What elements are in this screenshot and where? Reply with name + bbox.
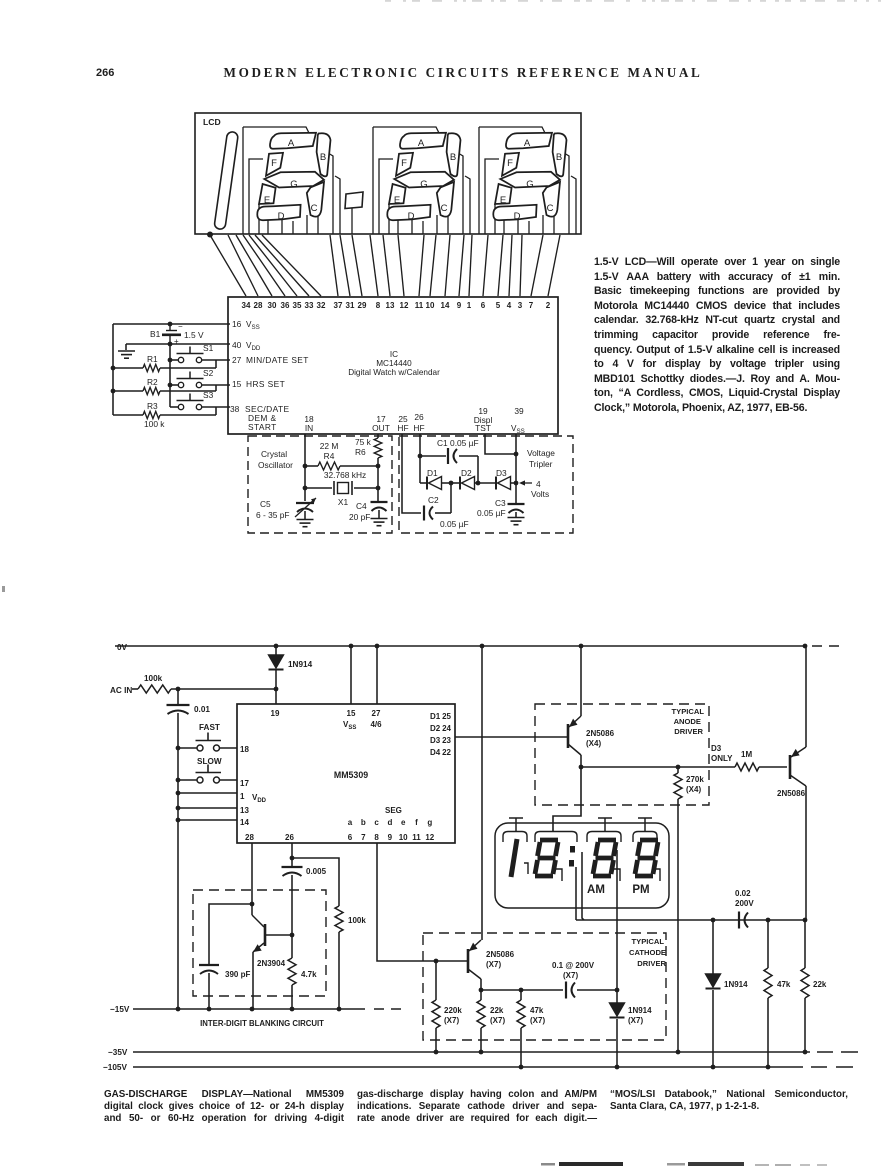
node junction [514, 452, 519, 457]
resistor R2 [113, 377, 216, 395]
svg-text:1N914: 1N914 [628, 1006, 652, 1015]
svg-text:12: 12 [400, 301, 409, 310]
svg-text:C4: C4 [356, 501, 367, 511]
svg-text:19: 19 [271, 709, 280, 718]
anode lead ticks [509, 818, 523, 831]
wire colon tail [351, 209, 353, 235]
ground below C4 [371, 519, 388, 526]
svg-text:Voltage: Voltage [527, 448, 555, 458]
svg-text:33: 33 [305, 301, 314, 310]
pin 18 IN [304, 414, 314, 433]
wire segment c to cathode driver base [377, 843, 467, 961]
svg-text:TST: TST [475, 423, 491, 433]
wire D3 pin23 to anode driver base [455, 736, 567, 738]
node cathode bus junction x768 [766, 918, 771, 923]
wire pin14 [178, 819, 237, 821]
node 0V junction x377 [375, 644, 380, 649]
transistor Q3 2N5086 (X7) cathode driver [468, 940, 515, 990]
svg-text:2: 2 [546, 301, 551, 310]
svg-text:TYPICAL: TYPICAL [632, 937, 665, 946]
node -15V junction x178 [176, 1007, 181, 1012]
svg-text:27: 27 [372, 709, 381, 718]
diode D3 [478, 468, 516, 490]
svg-text:100k: 100k [144, 674, 163, 683]
diode 1N914 right [706, 920, 749, 1067]
svg-text:2N5086: 2N5086 [777, 789, 806, 798]
svg-text:D2: D2 [461, 468, 472, 478]
label Crystal Oscillator [258, 449, 293, 470]
svg-text:R1: R1 [147, 354, 158, 364]
node -35V junction x436 [434, 1050, 439, 1055]
svg-text:AM: AM [587, 884, 605, 896]
node junction [615, 988, 620, 993]
wire VSS pin39 down [515, 434, 517, 504]
node junction [176, 778, 181, 783]
svg-text:22k: 22k [490, 1006, 504, 1015]
svg-text:14: 14 [240, 818, 249, 827]
wire pin27 to 0V [376, 646, 378, 704]
svg-text:VSS: VSS [343, 720, 356, 731]
svg-text:30: 30 [268, 301, 277, 310]
node junction [111, 389, 116, 394]
switch FAST [178, 723, 237, 751]
svg-text:DRIVER: DRIVER [637, 959, 666, 968]
node junction [274, 687, 279, 692]
svg-text:2N5086: 2N5086 [486, 950, 515, 959]
svg-text:(X7): (X7) [530, 1016, 545, 1025]
resistor 220k (X7) [432, 961, 462, 1052]
svg-text:IC: IC [390, 350, 398, 359]
display digit 8 (third) [593, 840, 616, 876]
svg-text:ONLY: ONLY [711, 754, 733, 763]
caption text GAS-DISCHARGE DISPLAY column 1 [104, 1089, 344, 1125]
node -15V junction x252 [250, 1007, 255, 1012]
svg-text:CATHODE: CATHODE [629, 948, 666, 957]
switch S2 [177, 368, 214, 388]
scan artifact bottom edge [541, 1162, 827, 1166]
svg-text:13: 13 [240, 806, 249, 815]
svg-text:d: d [387, 818, 392, 827]
resistor 1M [735, 750, 787, 771]
svg-text:Volts: Volts [531, 489, 549, 499]
svg-text:g: g [427, 818, 432, 827]
pin 15 HRS SET [232, 379, 285, 389]
svg-text:R6: R6 [355, 447, 366, 457]
svg-text:(X7): (X7) [444, 1016, 459, 1025]
svg-text:VDD: VDD [246, 341, 261, 352]
svg-text:0.05 µF: 0.05 µF [477, 508, 506, 518]
transistor Q1 2N5086 (X4) anode driver [568, 646, 615, 767]
node -35V junction x678 [676, 1050, 681, 1055]
svg-text:12: 12 [425, 833, 434, 842]
svg-text:10: 10 [426, 301, 435, 310]
pin 26 HF [413, 412, 424, 433]
svg-text:6: 6 [481, 301, 486, 310]
svg-text:20 pF: 20 pF [349, 512, 370, 522]
wire cathode bus [576, 919, 805, 921]
wire pin17 down [377, 434, 379, 438]
svg-text:LCD: LCD [203, 117, 221, 127]
svg-text:200V: 200V [735, 899, 754, 908]
dashed box crystal oscillator [248, 436, 392, 533]
svg-text:22 M: 22 M [320, 441, 339, 451]
node junction [676, 765, 681, 770]
pin 25 HF [397, 414, 408, 433]
pin name texts MM5309 [240, 709, 452, 842]
node -15V junction x209 [207, 1007, 212, 1012]
svg-text:1N914: 1N914 [288, 660, 313, 669]
node -15V junction x292 [290, 1007, 295, 1012]
switch S1 [177, 343, 214, 363]
wire base to 4.7k node [265, 934, 292, 936]
wire pin28 down [251, 843, 253, 915]
svg-text:−15V: −15V [110, 1005, 130, 1014]
svg-text:9: 9 [457, 301, 462, 310]
capacitor 0.1 @ 200V (X7) [552, 961, 617, 999]
node S1 common [168, 358, 173, 363]
resistor R4 22M [305, 441, 378, 470]
wire pin18 down [304, 434, 306, 501]
svg-text:0V: 0V [117, 643, 128, 652]
node junction [290, 933, 295, 938]
node 0V junction x351 [349, 644, 354, 649]
svg-text:e: e [401, 818, 406, 827]
svg-text:OUT: OUT [372, 423, 390, 433]
svg-text:D4: D4 [430, 748, 441, 757]
svg-text:1N914: 1N914 [724, 980, 748, 989]
node junction [168, 342, 173, 347]
svg-text:D1: D1 [430, 712, 441, 721]
resistor 47k (X7) [517, 990, 545, 1067]
wire collector bus cathode driver [481, 989, 563, 991]
svg-text:1.5 V: 1.5 V [184, 330, 204, 340]
IC name text [348, 350, 440, 377]
capacitor C3 0.05uF [477, 498, 525, 518]
svg-text:6: 6 [348, 833, 353, 842]
display colon [569, 846, 575, 867]
resistor 22k right [801, 920, 827, 1052]
switch S3 [177, 390, 214, 410]
svg-text:38: 38 [230, 404, 240, 414]
svg-text:D3: D3 [496, 468, 507, 478]
diode D2 [451, 468, 478, 490]
capacitor 390 pF [199, 904, 252, 1009]
svg-text:HF: HF [413, 423, 424, 433]
svg-text:40: 40 [232, 340, 242, 350]
svg-text:15: 15 [347, 709, 356, 718]
svg-text:220k: 220k [444, 1006, 462, 1015]
wire 0.005 node to 100k [292, 858, 339, 906]
label 4 Volts output arrow [519, 479, 549, 499]
pin 27 MIN/DATE SET [232, 355, 309, 365]
node -15V junction x339 [337, 1007, 342, 1012]
net -35V rail [108, 1048, 858, 1057]
LCD digit 2 (segments A-G) [373, 127, 470, 234]
ground below C3 [508, 518, 525, 525]
svg-text:28: 28 [254, 301, 263, 310]
pin 40 VDD [232, 340, 261, 352]
capacitor 0.005 [282, 867, 327, 935]
label Voltage Tripler [527, 448, 555, 469]
svg-text:32: 32 [317, 301, 326, 310]
wire S2 contacts [170, 384, 178, 386]
LCD colon segment [345, 192, 363, 209]
wire TST pin19 [485, 434, 516, 454]
svg-text:27: 27 [232, 355, 242, 365]
svg-text:22: 22 [442, 748, 451, 757]
svg-text:D1: D1 [427, 468, 438, 478]
wire AM/PM driver line [616, 850, 618, 990]
wire colon cathode down [575, 867, 577, 920]
node junction [176, 687, 181, 692]
svg-text:35: 35 [293, 301, 302, 310]
node junction [176, 746, 181, 751]
wire pin13 [178, 807, 237, 809]
svg-text:MODERN ELECTRONIC CIRCUITS REF: MODERN ELECTRONIC CIRCUITS REFERENCE MAN… [224, 65, 703, 80]
capacitor C2 0.05uF [424, 483, 469, 529]
wire anode driver collector bus [581, 766, 735, 768]
net -15V rail [110, 1005, 401, 1014]
svg-text:c: c [374, 818, 379, 827]
svg-text:ANODE: ANODE [674, 717, 701, 726]
wire AM/PM cathode down [582, 852, 584, 920]
cathode tail hooks [524, 863, 660, 881]
node junction [168, 322, 173, 327]
caption text column 2 [357, 1089, 597, 1125]
pin 17 OUT [372, 414, 390, 433]
svg-text:(X7): (X7) [486, 960, 501, 969]
wire pin26 down [419, 434, 421, 483]
svg-text:47k: 47k [777, 980, 791, 989]
wire pin15 to 0V [350, 646, 352, 704]
ground below C5 [297, 520, 314, 527]
pin 19 Displ TST [474, 406, 493, 433]
svg-text:INTER-DIGIT BLANKING CIRCUIT: INTER-DIGIT BLANKING CIRCUIT [200, 1019, 324, 1028]
node cathode bus junction x805 [803, 918, 808, 923]
svg-text:11: 11 [415, 301, 424, 310]
svg-text:2N5086: 2N5086 [586, 729, 615, 738]
svg-text:14: 14 [441, 301, 450, 310]
svg-text:(X7): (X7) [490, 1016, 505, 1025]
svg-text:22k: 22k [813, 980, 827, 989]
node junction [579, 765, 584, 770]
svg-text:270k: 270k [686, 775, 704, 784]
node junction [476, 481, 481, 486]
node S2 common [168, 383, 173, 388]
svg-text:SEG: SEG [385, 806, 402, 815]
resistor R1 [113, 354, 216, 372]
pin numbers top row [242, 301, 551, 310]
resistor R6 75k [355, 437, 382, 502]
node X1 right [376, 486, 381, 491]
node -105V junction x617 [615, 1065, 620, 1070]
svg-text:29: 29 [358, 301, 367, 310]
svg-text:0.05 µF: 0.05 µF [440, 519, 469, 529]
svg-text:18: 18 [240, 745, 249, 754]
svg-text:HRS SET: HRS SET [246, 379, 285, 389]
svg-text:R4: R4 [324, 451, 335, 461]
svg-text:b: b [361, 818, 366, 827]
svg-text:START: START [248, 422, 277, 432]
svg-text:VDD: VDD [252, 793, 267, 804]
pin 39 VSS [511, 406, 525, 435]
svg-text:(X7): (X7) [628, 1016, 643, 1025]
svg-text:1: 1 [467, 301, 472, 310]
node junction [519, 988, 524, 993]
svg-text:R2: R2 [147, 377, 158, 387]
svg-text:D3: D3 [430, 736, 441, 745]
pin 16 VSS [232, 319, 260, 331]
node 0V junction x805 [803, 644, 808, 649]
svg-text:4.7k: 4.7k [301, 970, 317, 979]
svg-text:28: 28 [245, 833, 254, 842]
svg-text:32.768 kHz: 32.768 kHz [324, 470, 366, 480]
LCD digit 3 (segments A-G) [479, 127, 576, 234]
svg-text:Tripler: Tripler [529, 459, 553, 469]
diode D1 [420, 468, 451, 490]
wire VDD row pin40 [170, 343, 230, 345]
svg-text:36: 36 [281, 301, 290, 310]
wire anode lead digit2 from driver [553, 767, 581, 831]
LCD display outline [195, 113, 581, 234]
svg-text:VSS: VSS [246, 320, 260, 331]
svg-text:10: 10 [399, 833, 408, 842]
node -105V junction x713 [711, 1065, 716, 1070]
svg-text:C5: C5 [260, 499, 271, 509]
node junction [514, 481, 519, 486]
label D3 ONLY [711, 744, 733, 763]
resistor 270k (X4) [674, 767, 704, 1052]
wire S3 contacts [170, 406, 178, 408]
svg-text:266: 266 [96, 67, 114, 79]
svg-text:8: 8 [374, 833, 379, 842]
svg-text:3: 3 [518, 301, 523, 310]
svg-text:SLOW: SLOW [197, 757, 222, 766]
node 0V junction x581 [579, 644, 584, 649]
transistor Q2 2N5086 right [777, 646, 806, 920]
node junction [434, 959, 439, 964]
node R4 left [303, 464, 308, 469]
svg-text:(X4): (X4) [586, 739, 601, 748]
resistor 100k blanking [335, 906, 366, 1009]
wire VSS row pin16 [113, 323, 230, 325]
svg-text:C3: C3 [495, 498, 506, 508]
svg-text:4: 4 [507, 301, 512, 310]
capacitor 0.02 200V [735, 889, 754, 929]
svg-text:(X7): (X7) [563, 971, 578, 980]
svg-text:37: 37 [334, 301, 343, 310]
wire C1 to D1-D2 node [477, 456, 479, 483]
node junction [479, 988, 484, 993]
svg-text:IN: IN [305, 423, 313, 433]
node junction [111, 366, 116, 371]
svg-text:25: 25 [442, 712, 451, 721]
svg-text:47k: 47k [530, 1006, 544, 1015]
wire pin26 down [291, 843, 293, 866]
svg-text:100 k: 100 k [144, 419, 165, 429]
svg-text:11: 11 [412, 833, 421, 842]
switch SLOW [178, 757, 237, 783]
svg-text:HF: HF [397, 423, 408, 433]
node -105V junction x521 [519, 1065, 524, 1070]
svg-text:AC IN: AC IN [110, 686, 132, 695]
svg-text:S2: S2 [203, 368, 214, 378]
svg-text:15: 15 [232, 379, 242, 389]
wire switch common vertical [169, 344, 171, 407]
svg-text:C1 0.05 µF: C1 0.05 µF [437, 438, 479, 448]
svg-text:C2: C2 [428, 495, 439, 505]
svg-text:7: 7 [361, 833, 366, 842]
svg-text:0.005: 0.005 [306, 867, 327, 876]
node 0V junction x482 [480, 644, 485, 649]
resistor 47k right [764, 920, 791, 1067]
svg-text:−35V: −35V [108, 1048, 128, 1057]
battery B1 [150, 322, 204, 346]
svg-text:24: 24 [442, 724, 451, 733]
svg-text:f: f [415, 818, 418, 827]
svg-text:Oscillator: Oscillator [258, 460, 293, 470]
IC U2 MM5309 box [237, 704, 455, 843]
wire left bus vertical [112, 324, 114, 415]
net -105V rail [103, 1063, 853, 1072]
svg-text:PM: PM [632, 884, 649, 896]
svg-text:100k: 100k [348, 916, 366, 925]
svg-text:23: 23 [442, 736, 451, 745]
svg-text:Digital Watch w/Calendar: Digital Watch w/Calendar [348, 368, 440, 377]
node 0V junction x276 [274, 644, 279, 649]
svg-text:MM5309: MM5309 [334, 770, 368, 780]
svg-text:(X4): (X4) [686, 785, 701, 794]
node junction [207, 232, 213, 238]
svg-text:9: 9 [388, 833, 393, 842]
diode 1N914 clamp [269, 646, 313, 704]
node -105V junction x768 [766, 1065, 771, 1070]
svg-text:FAST: FAST [199, 723, 220, 732]
ground symbol battery [118, 344, 170, 358]
scan artifact left margin speck [2, 586, 5, 592]
svg-text:Crystal: Crystal [261, 449, 287, 459]
node -35V junction x805 [803, 1050, 808, 1055]
svg-text:26: 26 [414, 412, 424, 422]
svg-text:34: 34 [242, 301, 251, 310]
capacitor C5 6-35 pF (trimmer) [256, 498, 316, 520]
svg-text:a: a [348, 818, 353, 827]
svg-text:DRIVER: DRIVER [674, 727, 703, 736]
caption text 1.5-V LCD [594, 255, 840, 416]
svg-text:5: 5 [496, 301, 501, 310]
dashed box inter-digit blanking [193, 890, 326, 996]
svg-text:0.01: 0.01 [194, 705, 210, 714]
node -35V junction x481 [479, 1050, 484, 1055]
svg-text:−: − [178, 322, 183, 331]
capacitor 0.01 [167, 689, 211, 1009]
diode 1N914 (X7) [610, 990, 653, 1067]
svg-text:X1: X1 [338, 497, 349, 507]
svg-text:39: 39 [514, 406, 524, 416]
svg-text:0.1 @ 200V: 0.1 @ 200V [552, 961, 595, 970]
caption text column 3 [610, 1089, 848, 1113]
node X1 left [303, 486, 308, 491]
LCD digit 1 (segments A-G) [243, 127, 340, 234]
resistor 100k AC input [110, 674, 276, 695]
svg-text:4/6: 4/6 [370, 720, 382, 729]
svg-text:13: 13 [386, 301, 395, 310]
node junction [418, 454, 423, 459]
capacitor C4 20 pF [349, 501, 388, 522]
resistor 22k (X7) [477, 990, 505, 1052]
dashed box typical cathode driver [423, 933, 666, 1040]
resistor 4.7k [288, 935, 317, 1009]
